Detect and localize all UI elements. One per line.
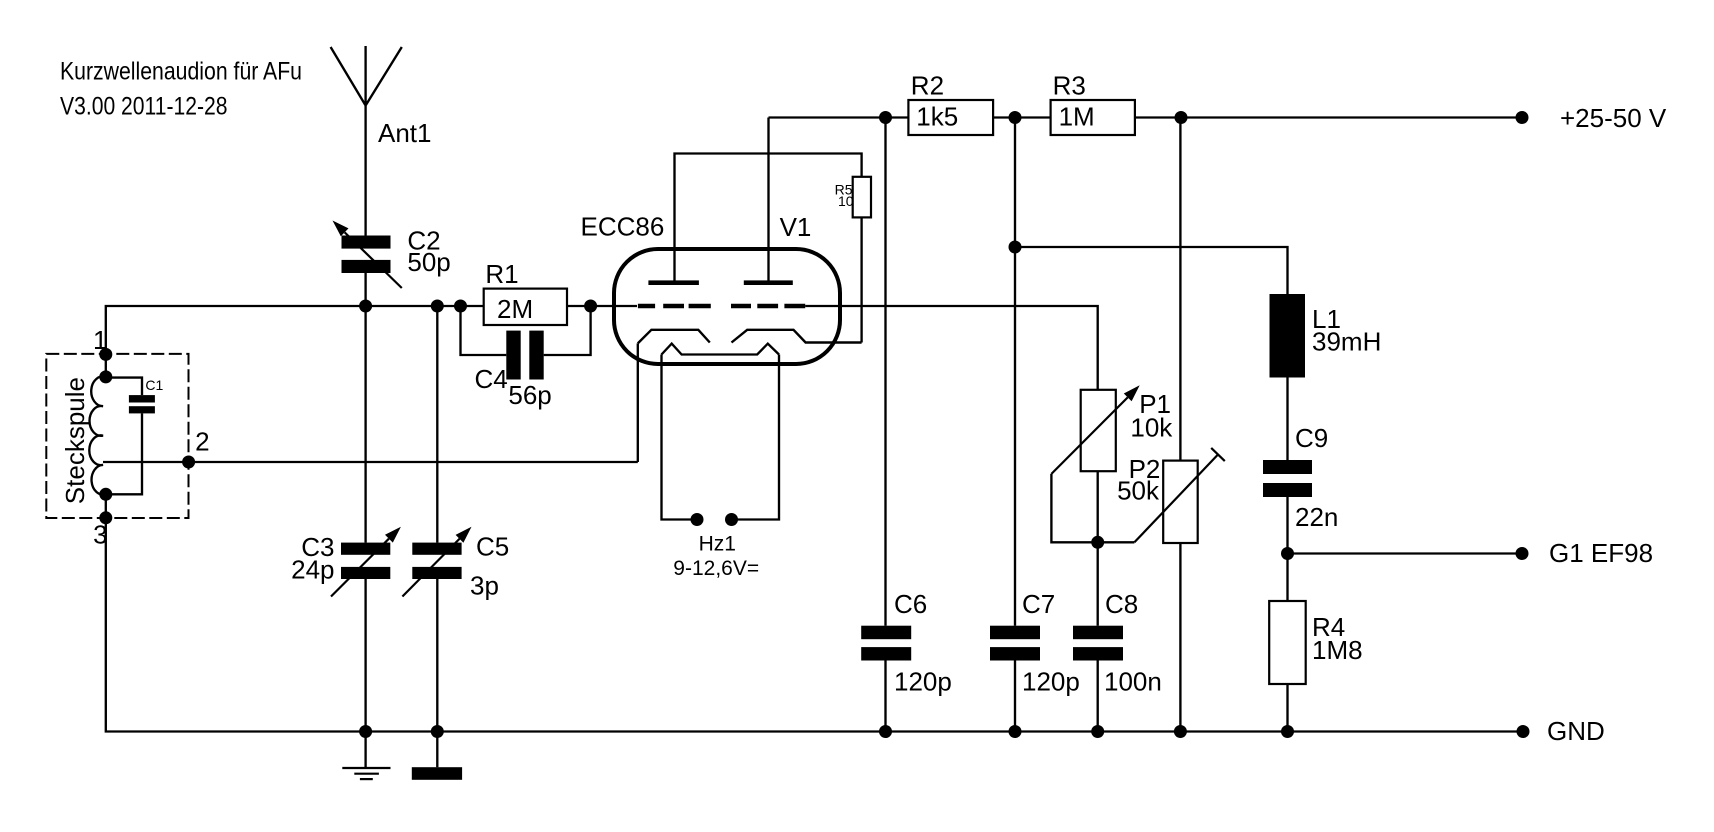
svg-text:3p: 3p bbox=[470, 571, 499, 601]
svg-text:9-12,6V=: 9-12,6V= bbox=[673, 557, 759, 580]
svg-text:Hz1: Hz1 bbox=[699, 533, 736, 556]
svg-text:Steckspule: Steckspule bbox=[60, 377, 90, 504]
svg-text:C9: C9 bbox=[1295, 423, 1328, 453]
svg-text:1M: 1M bbox=[1059, 102, 1095, 132]
svg-text:1M8: 1M8 bbox=[1312, 635, 1363, 665]
svg-text:120p: 120p bbox=[1022, 667, 1080, 697]
svg-text:ECC86: ECC86 bbox=[581, 212, 665, 242]
svg-text:V1: V1 bbox=[780, 212, 812, 242]
svg-text:1: 1 bbox=[93, 325, 107, 355]
svg-text:2: 2 bbox=[195, 427, 209, 457]
svg-text:C6: C6 bbox=[894, 589, 927, 619]
svg-text:C4: C4 bbox=[475, 364, 508, 394]
svg-text:3: 3 bbox=[93, 519, 107, 549]
svg-text:50k: 50k bbox=[1117, 476, 1160, 506]
svg-text:2M: 2M bbox=[497, 294, 533, 324]
svg-text:C1: C1 bbox=[145, 377, 163, 393]
svg-text:56p: 56p bbox=[508, 380, 551, 410]
svg-text:10: 10 bbox=[838, 193, 854, 209]
svg-text:C7: C7 bbox=[1022, 589, 1055, 619]
svg-text:50p: 50p bbox=[407, 247, 450, 277]
svg-text:Kurzwellenaudion für AFu: Kurzwellenaudion für AFu bbox=[60, 58, 302, 86]
svg-text:R3: R3 bbox=[1053, 70, 1086, 100]
svg-text:R1: R1 bbox=[485, 259, 518, 289]
svg-text:C8: C8 bbox=[1105, 589, 1138, 619]
svg-text:22n: 22n bbox=[1295, 502, 1338, 532]
svg-text:+25-50 V: +25-50 V bbox=[1560, 103, 1667, 133]
svg-text:10k: 10k bbox=[1130, 412, 1173, 442]
svg-text:120p: 120p bbox=[894, 667, 952, 697]
svg-text:100n: 100n bbox=[1104, 667, 1162, 697]
svg-text:G1 EF98: G1 EF98 bbox=[1549, 538, 1653, 568]
svg-text:24p: 24p bbox=[291, 555, 334, 585]
svg-text:39mH: 39mH bbox=[1312, 327, 1381, 357]
svg-text:R2: R2 bbox=[911, 70, 944, 100]
svg-text:Ant1: Ant1 bbox=[378, 118, 432, 148]
svg-text:V3.00 2011-12-28: V3.00 2011-12-28 bbox=[60, 93, 228, 121]
svg-text:GND: GND bbox=[1547, 716, 1605, 746]
svg-text:1k5: 1k5 bbox=[916, 102, 958, 132]
svg-text:C5: C5 bbox=[476, 532, 509, 562]
